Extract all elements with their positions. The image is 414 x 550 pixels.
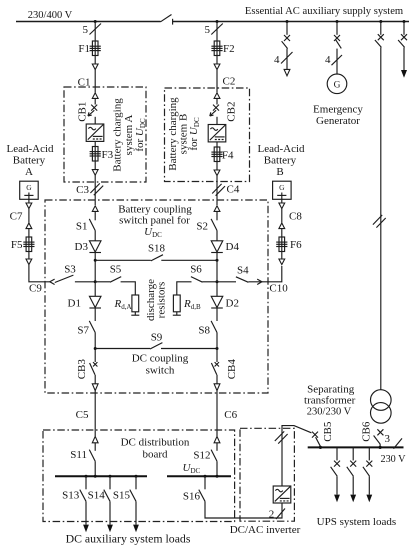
- wire C5 to S11: [94, 443, 96, 451]
- label Battery coupling switch panel for UDC: [118, 204, 192, 240]
- connector arrow up C5 into board: [92, 436, 98, 442]
- svg-text:4: 4: [274, 54, 280, 66]
- svg-text:A: A: [25, 166, 33, 178]
- wire S18 rail right segment: [161, 259, 217, 261]
- svg-text:Battery: Battery: [264, 155, 297, 167]
- enclosure battery coupling switch panel: [45, 200, 268, 393]
- label Emergency Generator: [313, 103, 363, 127]
- node busbar S12 tap: [216, 475, 219, 478]
- svg-text:DC auxiliary system loads: DC auxiliary system loads: [66, 532, 191, 546]
- wire D4 to discharge rail: [216, 253, 218, 297]
- wire S7 to S9 rail: [94, 333, 96, 363]
- svg-text:CB3: CB3: [76, 359, 88, 380]
- connector arrow down C1: [92, 64, 98, 70]
- connector arrow down battery A: [26, 203, 32, 209]
- wire S9 rail left segment: [95, 348, 150, 350]
- load arrow UPS 1: [334, 495, 340, 503]
- switch S16 drop: [199, 476, 205, 501]
- enclosure DC/AC inverter: [240, 428, 294, 521]
- connector arrow up C6 into board: [214, 436, 220, 442]
- svg-text:C3: C3: [76, 184, 89, 196]
- wire generator drop: [336, 49, 338, 74]
- svg-text:Battery charging: Battery charging: [112, 98, 124, 172]
- wire CB4 to panel edge: [216, 375, 218, 384]
- wire D3 to S18 rail: [94, 253, 96, 282]
- conductor-count slash F2 drop: [211, 24, 223, 35]
- svg-text:B: B: [276, 166, 283, 178]
- load arrow right drop: [401, 70, 407, 78]
- isolating double slash on transformer feeder: [373, 215, 386, 228]
- wire S8 to S9 rail: [216, 333, 218, 363]
- node discharge rail left: [94, 280, 97, 283]
- svg-text:S3: S3: [64, 264, 76, 276]
- svg-text:board: board: [142, 449, 168, 461]
- node busbar S13 tap: [85, 475, 88, 478]
- wire S3 to left DC pole: [75, 281, 95, 283]
- wire S18 rail left segment: [95, 259, 151, 261]
- node S9 rail right: [216, 347, 219, 350]
- wire S12 to UDC busbar: [216, 461, 218, 476]
- conductor-count slash generator: [332, 55, 343, 65]
- svg-text:S2: S2: [196, 221, 208, 233]
- switch S15 drop: [130, 476, 136, 524]
- diode D3: [89, 241, 101, 253]
- busbar UDC: [167, 475, 231, 477]
- node bus junction F2 drop: [216, 20, 219, 23]
- conductor-count slash 230V bus: [394, 438, 403, 448]
- fuse F2: [211, 41, 222, 56]
- wire F1 drop upper: [94, 22, 96, 42]
- svg-text:S11: S11: [70, 449, 87, 461]
- switch UPS drop 2: [347, 447, 356, 494]
- wire top AC bus right segment: [173, 21, 409, 23]
- isolating double slash C4: [212, 184, 225, 196]
- svg-text:230/400 V: 230/400 V: [28, 10, 73, 21]
- converter AC/DC charger A: [86, 124, 104, 141]
- wire F5 down: [28, 252, 30, 259]
- svg-text:G: G: [26, 183, 32, 192]
- node busbar S14 tap: [109, 475, 112, 478]
- switch S3 blade: [55, 275, 74, 282]
- circuit breaker CB6: [374, 429, 384, 447]
- label discharge resistors (rotated): [145, 279, 167, 321]
- circuit breaker generator drop: [334, 22, 341, 49]
- node CB6 on 230V bus: [379, 446, 382, 449]
- svg-text:C7: C7: [10, 211, 23, 223]
- battery B symbol: [273, 181, 292, 199]
- enclosure DC distribution board: [43, 430, 235, 522]
- circuit breaker CB5: [312, 432, 320, 447]
- generator G1 Emergency Generator: [327, 74, 347, 94]
- svg-text:C10: C10: [269, 282, 288, 294]
- svg-text:S18: S18: [148, 243, 166, 255]
- svg-text:5: 5: [83, 24, 89, 36]
- switch S14 drop: [104, 476, 110, 524]
- connector arrow up into box B: [214, 93, 220, 99]
- circuit breaker CB1: [88, 105, 97, 116]
- svg-text:F4: F4: [222, 150, 234, 162]
- svg-text:S5: S5: [110, 263, 122, 275]
- wire C1 into box A: [94, 70, 96, 93]
- resistor Rd,B: [173, 295, 181, 315]
- node busbar S16 tap: [204, 475, 207, 478]
- svg-text:F1: F1: [78, 43, 90, 55]
- diode D2: [211, 296, 223, 308]
- connector arrow down C5 exit: [92, 384, 98, 391]
- wire feeder drop: [286, 49, 288, 70]
- node busbar S15 tap: [135, 475, 138, 478]
- svg-text:C5: C5: [76, 409, 89, 421]
- switch S12: [211, 450, 217, 462]
- connector arrow down box A output: [92, 170, 98, 176]
- svg-text:C2: C2: [223, 76, 236, 88]
- wire CB1 to charger A: [94, 117, 96, 124]
- svg-text:CB6: CB6: [361, 421, 373, 442]
- wire right pole to S2: [216, 211, 218, 220]
- converter DC/AC inverter U2: [273, 486, 291, 503]
- diode D1: [89, 296, 101, 308]
- switch S13 drop: [80, 476, 86, 524]
- connector arrow down battery B lead: [279, 259, 285, 265]
- fuse F1: [90, 41, 101, 56]
- wire to F5: [28, 229, 30, 237]
- diode D4: [211, 241, 223, 253]
- isolating double slash C3: [90, 183, 103, 195]
- wire F2 drop upper: [216, 22, 218, 42]
- circuit breaker CB4: [211, 362, 219, 375]
- svg-text:Essential AC auxiliary supply: Essential AC auxiliary supply system: [245, 6, 404, 17]
- wire F4 to connector: [216, 162, 218, 170]
- load arrow UPS 2: [350, 495, 356, 503]
- svg-text:S12: S12: [193, 450, 210, 462]
- enclosure battery charging system A: [64, 87, 146, 182]
- switch S4 blade: [236, 277, 249, 283]
- label DC distribution board: [121, 437, 190, 461]
- svg-text:CB1: CB1: [77, 102, 89, 122]
- svg-text:S14: S14: [88, 489, 106, 501]
- svg-text:resistors: resistors: [155, 282, 167, 319]
- wire battery A to C9 corner: [29, 265, 50, 282]
- node bus junction feeder drop: [286, 20, 289, 23]
- wire right pole to S4: [217, 281, 236, 283]
- svg-text:D1: D1: [68, 298, 81, 310]
- svg-text:CB2: CB2: [226, 102, 238, 122]
- connector arrow up left pole into panel: [92, 206, 98, 212]
- switch S7: [89, 321, 95, 333]
- svg-text:transformer: transformer: [304, 395, 356, 407]
- connector arrow down C6 exit: [214, 384, 220, 391]
- switch S5 blade: [110, 277, 121, 283]
- wire box A output to panel (node C3): [94, 175, 96, 205]
- svg-text:switch: switch: [146, 365, 175, 377]
- switch UPS drop 3: [363, 447, 372, 494]
- wire battery B to connector: [281, 199, 283, 203]
- fuse F6: [276, 237, 287, 252]
- svg-text:DC coupling: DC coupling: [132, 353, 189, 365]
- switch S2: [211, 219, 217, 231]
- wire S5 to resistor A corner: [121, 282, 136, 295]
- svg-text:UPS system loads: UPS system loads: [317, 516, 396, 528]
- switch S1: [89, 219, 95, 231]
- fuse F5: [23, 237, 34, 252]
- wire S16 to inverter input: [205, 501, 282, 518]
- svg-text:5: 5: [205, 24, 211, 36]
- switch S18 blade: [151, 255, 163, 261]
- wire long feeder to separating transformer: [380, 47, 382, 389]
- switch S9 blade: [150, 343, 162, 349]
- svg-text:S13: S13: [62, 489, 80, 501]
- switch S3 plug arrow: [50, 279, 55, 284]
- conductor-count slash inverter output: [276, 509, 285, 520]
- wire S1 to D3: [94, 231, 96, 241]
- svg-text:S16: S16: [183, 491, 201, 503]
- svg-text:Generator: Generator: [316, 115, 360, 127]
- wire C6: [216, 391, 218, 437]
- svg-text:2: 2: [269, 509, 275, 521]
- node CB5 on 230V bus: [319, 446, 322, 449]
- svg-text:Lead-Acid: Lead-Acid: [6, 143, 54, 155]
- wire S4 to C10 corner: [248, 266, 281, 282]
- connector arrow up battery A fuse: [26, 223, 32, 229]
- load arrow S15: [133, 525, 139, 533]
- node bus junction right load drop: [403, 20, 406, 23]
- wire CB2 to charger B: [216, 117, 218, 125]
- svg-text:D2: D2: [226, 298, 239, 310]
- wire discharge stub right: [202, 281, 217, 283]
- node busbar S11 tap: [94, 475, 97, 478]
- svg-text:230 V: 230 V: [380, 454, 406, 465]
- svg-text:DC/AC inverter: DC/AC inverter: [230, 524, 301, 536]
- converter AC/DC charger B: [208, 125, 226, 142]
- circuit breaker CB2: [210, 105, 219, 116]
- load arrow S13: [83, 525, 89, 533]
- svg-text:F2: F2: [223, 43, 235, 55]
- wire box B output to panel (node C4): [216, 176, 218, 205]
- node bus junction transformer feeder: [379, 20, 382, 23]
- wire S9 rail right segment: [161, 348, 217, 350]
- svg-text:D3: D3: [75, 241, 89, 253]
- switch S6 blade: [191, 277, 203, 283]
- svg-text:DC distribution: DC distribution: [121, 437, 190, 449]
- label Battery charging system B for UDC (rotated): [167, 97, 201, 171]
- svg-text:D4: D4: [226, 241, 240, 253]
- label Separating transformer 230/230 V: [304, 384, 356, 418]
- busbar DC auxiliary left: [55, 475, 147, 477]
- wire to F6: [281, 229, 283, 237]
- node S18 rail left: [94, 259, 97, 262]
- switch S11: [89, 450, 95, 462]
- svg-text:G: G: [279, 183, 285, 192]
- wire F1 to C1 connector: [94, 56, 96, 64]
- resistor Rd,A: [131, 295, 139, 315]
- svg-text:S8: S8: [198, 325, 210, 337]
- wire inverter output riser: [282, 426, 311, 486]
- svg-text:S7: S7: [77, 325, 89, 337]
- wire charger B to F4: [216, 142, 218, 147]
- svg-text:C4: C4: [227, 183, 240, 195]
- conductor-count slash F1 drop: [90, 24, 102, 35]
- connector arrow up right pole into panel: [214, 206, 220, 212]
- wire left pole to D1: [94, 282, 96, 297]
- isolating double slash inverter riser: [275, 431, 288, 443]
- wire discharge stub left: [95, 281, 110, 283]
- wire top AC bus left segment: [16, 21, 161, 23]
- svg-text:Battery: Battery: [13, 155, 46, 167]
- wire D1 to S7: [94, 308, 96, 321]
- svg-text:CB5: CB5: [322, 421, 334, 442]
- node S18 rail right: [216, 259, 219, 262]
- svg-text:S1: S1: [76, 221, 88, 233]
- circuit breaker right load drop: [398, 22, 407, 48]
- wire F2 to C2 connector: [216, 56, 218, 64]
- load arrow UPS 3: [366, 495, 372, 503]
- switch UPS drop 1: [331, 447, 340, 494]
- svg-text:C8: C8: [289, 211, 302, 223]
- wire C2 into box B: [216, 70, 218, 93]
- svg-text:4: 4: [325, 54, 331, 66]
- svg-text:Emergency: Emergency: [313, 103, 363, 115]
- svg-text:F6: F6: [290, 239, 302, 251]
- svg-text:Lead-Acid: Lead-Acid: [257, 143, 305, 155]
- switch S8: [211, 321, 217, 333]
- wire to CB2: [216, 98, 218, 104]
- enclosure battery charging system B: [165, 88, 250, 182]
- conductor-count slash feeder: [281, 52, 293, 64]
- wire S2 to D4: [216, 231, 218, 241]
- wire right load drop: [403, 47, 405, 70]
- fuse F3: [90, 147, 101, 162]
- wire to CB1: [94, 98, 96, 104]
- node discharge rail right: [216, 280, 219, 283]
- label DC coupling switch: [132, 353, 189, 377]
- svg-text:C6: C6: [224, 409, 237, 421]
- svg-text:G: G: [334, 81, 341, 91]
- connector arrow down feeder: [284, 69, 290, 75]
- wire C5: [94, 391, 96, 437]
- transformer T1 separating: [371, 390, 392, 424]
- wire battery A to connector: [28, 199, 30, 203]
- svg-text:S9: S9: [151, 332, 163, 344]
- label Battery charging system A for UDC (rotated): [112, 98, 148, 172]
- wire C6 to S12: [216, 443, 218, 451]
- wire left pole to S1: [94, 211, 96, 220]
- circuit breaker feeder drop: [282, 22, 290, 49]
- wire D2 to S8: [216, 308, 218, 321]
- wire C7: [28, 209, 30, 223]
- wire F3 to connector: [94, 161, 96, 169]
- wire CB3 to panel edge: [94, 375, 96, 384]
- node bus junction generator drop: [336, 20, 339, 23]
- svg-text:S15: S15: [113, 489, 131, 501]
- connector arrow down C2: [214, 64, 220, 70]
- label Lead-Acid Battery B: [257, 143, 305, 178]
- connector arrow up into box A: [92, 93, 98, 99]
- wire F6 down: [281, 252, 283, 259]
- svg-text:3: 3: [385, 433, 391, 445]
- wire charger A to F3: [94, 141, 96, 146]
- label Lead-Acid Battery A: [6, 143, 54, 178]
- circuit breaker transformer feeder: [375, 22, 384, 48]
- svg-text:S6: S6: [190, 263, 202, 275]
- busbar 230 V UPS: [308, 446, 404, 448]
- node bus junction F1 drop: [94, 20, 97, 23]
- switch bus-tie contact tick: [172, 19, 174, 25]
- connector arrow down battery A lead: [26, 259, 32, 265]
- connector arrow down battery B: [279, 203, 285, 209]
- svg-text:S4: S4: [237, 265, 249, 277]
- load arrow S14: [107, 525, 113, 533]
- node S9 rail left: [94, 347, 97, 350]
- svg-text:switch panel for: switch panel for: [119, 215, 190, 227]
- wire S6 to resistor B corner: [177, 282, 192, 295]
- switch S4 plug arrow: [257, 279, 262, 284]
- switch bus-tie blade: [161, 15, 172, 22]
- svg-text:230/230 V: 230/230 V: [307, 407, 352, 418]
- svg-text:C9: C9: [29, 283, 42, 295]
- connector arrow down box B output: [214, 170, 220, 176]
- battery A symbol: [20, 181, 39, 199]
- svg-text:F5: F5: [11, 239, 23, 251]
- connector arrow up battery B fuse: [279, 223, 285, 229]
- wire C8: [281, 209, 283, 223]
- svg-text:F3: F3: [102, 149, 114, 161]
- circuit breaker CB3: [90, 362, 98, 375]
- svg-text:CB4: CB4: [226, 359, 238, 380]
- fuse F4: [211, 147, 222, 162]
